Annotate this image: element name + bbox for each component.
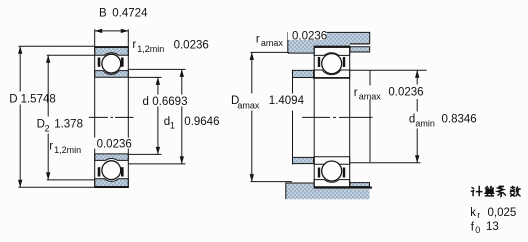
D2 extension line top (47, 54, 95, 56)
housing ring strip right of bearing (top) (350, 47, 370, 52)
bearing side face left (right view) (313, 47, 315, 188)
Chinese title 计算系数 (drawn strokes, bold) (471, 186, 521, 197)
svg-text:r: r (132, 39, 136, 51)
bearing side face right (right view) (349, 47, 351, 188)
svg-text:f: f (471, 221, 475, 233)
svg-text:0: 0 (475, 225, 480, 235)
B arrowhead left (95, 29, 103, 33)
bearing side face right (left view) (127, 47, 129, 187)
svg-text:amax: amax (359, 92, 382, 102)
D arrowhead bottom (18, 180, 22, 188)
D arrowhead top (18, 46, 22, 54)
white box for r_amax value (288, 29, 327, 40)
ball bottom (left view) (102, 161, 121, 180)
d1 arrowhead bottom (180, 156, 184, 164)
B dimension extension line right (127, 29, 129, 47)
B arrowhead right (121, 29, 129, 33)
D2 dimension line (47, 55, 49, 180)
svg-text:0.0236: 0.0236 (97, 138, 132, 150)
svg-text:d: d (409, 114, 415, 126)
D2 arrowhead bottom (46, 172, 50, 180)
r_amax reference line (middle) (369, 70, 371, 162)
cage bar right of bottom ball (right) (343, 168, 345, 178)
d1 extension line bottom (128, 163, 185, 165)
d_a top extension line (350, 69, 427, 71)
char 计 (471, 186, 483, 197)
ball top (left view) (102, 54, 121, 73)
ball top (right view) (322, 54, 342, 74)
svg-text:1: 1 (170, 121, 175, 131)
inner ring top bottom edge thick (313, 77, 350, 79)
char 系 (498, 186, 506, 197)
D_amax extension line bottom (251, 181, 293, 183)
outer ring bottom section (right view, unfilled) (314, 180, 350, 187)
D extension line bottom (19, 186, 95, 188)
svg-text:13: 13 (486, 221, 499, 233)
D_amax arrowhead bottom (250, 174, 254, 182)
d extension line top (128, 76, 161, 78)
svg-text:0.6693: 0.6693 (152, 96, 187, 108)
D dimension line (19, 46, 21, 187)
d extension line bottom (128, 153, 161, 155)
housing top band right lower edge (350, 43, 370, 45)
svg-text:r: r (477, 210, 480, 220)
svg-text:0.0236: 0.0236 (174, 40, 209, 52)
svg-text:0.8346: 0.8346 (442, 114, 477, 126)
cage bar right of top ball (121, 58, 124, 67)
shaft shoulder face line (292, 70, 294, 165)
inner ring top section (left view) (95, 71, 129, 78)
shaft shoulder bar bottom (right view) (293, 157, 314, 163)
housing ring strip right of bearing (bottom) (350, 183, 370, 187)
d_amin arrowhead top (415, 70, 419, 78)
d dimension line (157, 77, 159, 154)
D2 arrowhead top (46, 55, 50, 63)
svg-text:1.4094: 1.4094 (269, 95, 305, 107)
centerline (right view axis) (302, 116, 373, 118)
d arrowhead bottom (156, 147, 160, 155)
svg-text:0.4724: 0.4724 (112, 8, 148, 20)
D2 extension line bottom (47, 179, 95, 181)
cage bar right of bottom ball (121, 167, 124, 176)
bearing top thick edge (right view) (314, 46, 351, 48)
svg-text:1,2min: 1,2min (137, 44, 164, 54)
bearing bottom thick edge (right view) (314, 187, 372, 189)
outer ring top section (right view, unfilled) (314, 47, 350, 55)
B dimension line (95, 30, 129, 32)
svg-text:amax: amax (261, 38, 284, 48)
outer ring top thick edge (94, 46, 129, 48)
svg-text:k: k (470, 207, 476, 219)
svg-text:amax: amax (237, 100, 260, 110)
char 算 (484, 186, 494, 196)
svg-text:2: 2 (45, 124, 50, 134)
svg-text:r: r (354, 87, 358, 99)
ball bottom (right view) (322, 161, 342, 181)
svg-text:amin: amin (415, 118, 435, 128)
shaft shoulder bar top (right view) (293, 70, 314, 77)
svg-text:0.9646: 0.9646 (184, 116, 219, 128)
inner ring bottom section (left view) (95, 154, 129, 161)
cage bar left of bottom ball (right) (318, 168, 320, 178)
housing top band (right view) (288, 32, 370, 53)
housing bottom band (right view) (286, 183, 370, 199)
d1 extension line top (128, 68, 185, 70)
cage bar left of top ball (right) (318, 57, 320, 67)
cage bar left of bottom ball (98, 167, 101, 176)
B dimension extension line left (94, 29, 96, 47)
svg-text:1.378: 1.378 (54, 119, 83, 131)
inner ring bottom section (right view, unfilled) (314, 157, 350, 165)
outer ring bottom section (left view) (95, 179, 129, 187)
svg-text:r: r (49, 140, 53, 152)
outer ring top section (left view) (95, 47, 129, 55)
svg-text:0.0236: 0.0236 (388, 87, 423, 99)
d_amin dimension line (416, 70, 418, 163)
svg-text:0.0236: 0.0236 (292, 31, 327, 43)
svg-text:d: d (143, 96, 149, 108)
cage bar right of top ball (right) (343, 57, 345, 67)
svg-text:D: D (9, 93, 17, 105)
char 数 (510, 186, 521, 197)
outer ring bottom thick edge (94, 186, 129, 188)
inner ring top section (right view, unfilled) (314, 70, 350, 78)
D_amax extension line top (251, 51, 290, 53)
D extension line top (19, 45, 95, 47)
D_amax arrowhead top (250, 52, 254, 60)
svg-text:B: B (99, 8, 107, 20)
housing top band outline (288, 32, 370, 53)
D_amax dimension line (251, 52, 253, 181)
d arrowhead top (156, 77, 160, 85)
bearing side face left (left view) (94, 47, 96, 187)
d_a bottom extension line (350, 162, 421, 164)
centerline (left view axis) (89, 116, 134, 118)
housing bottom shoulder top edge (286, 183, 314, 199)
svg-text:r: r (256, 33, 260, 45)
svg-text:1,2min: 1,2min (54, 145, 81, 155)
svg-text:0,025: 0,025 (488, 207, 517, 219)
d_amin arrowhead bottom (415, 155, 419, 163)
d1 dimension line (181, 69, 183, 163)
d1 arrowhead top (180, 69, 184, 77)
housing top shoulder bottom edge (288, 52, 314, 54)
svg-text:1.5748: 1.5748 (21, 93, 56, 105)
cage bar left of top ball (98, 58, 101, 67)
